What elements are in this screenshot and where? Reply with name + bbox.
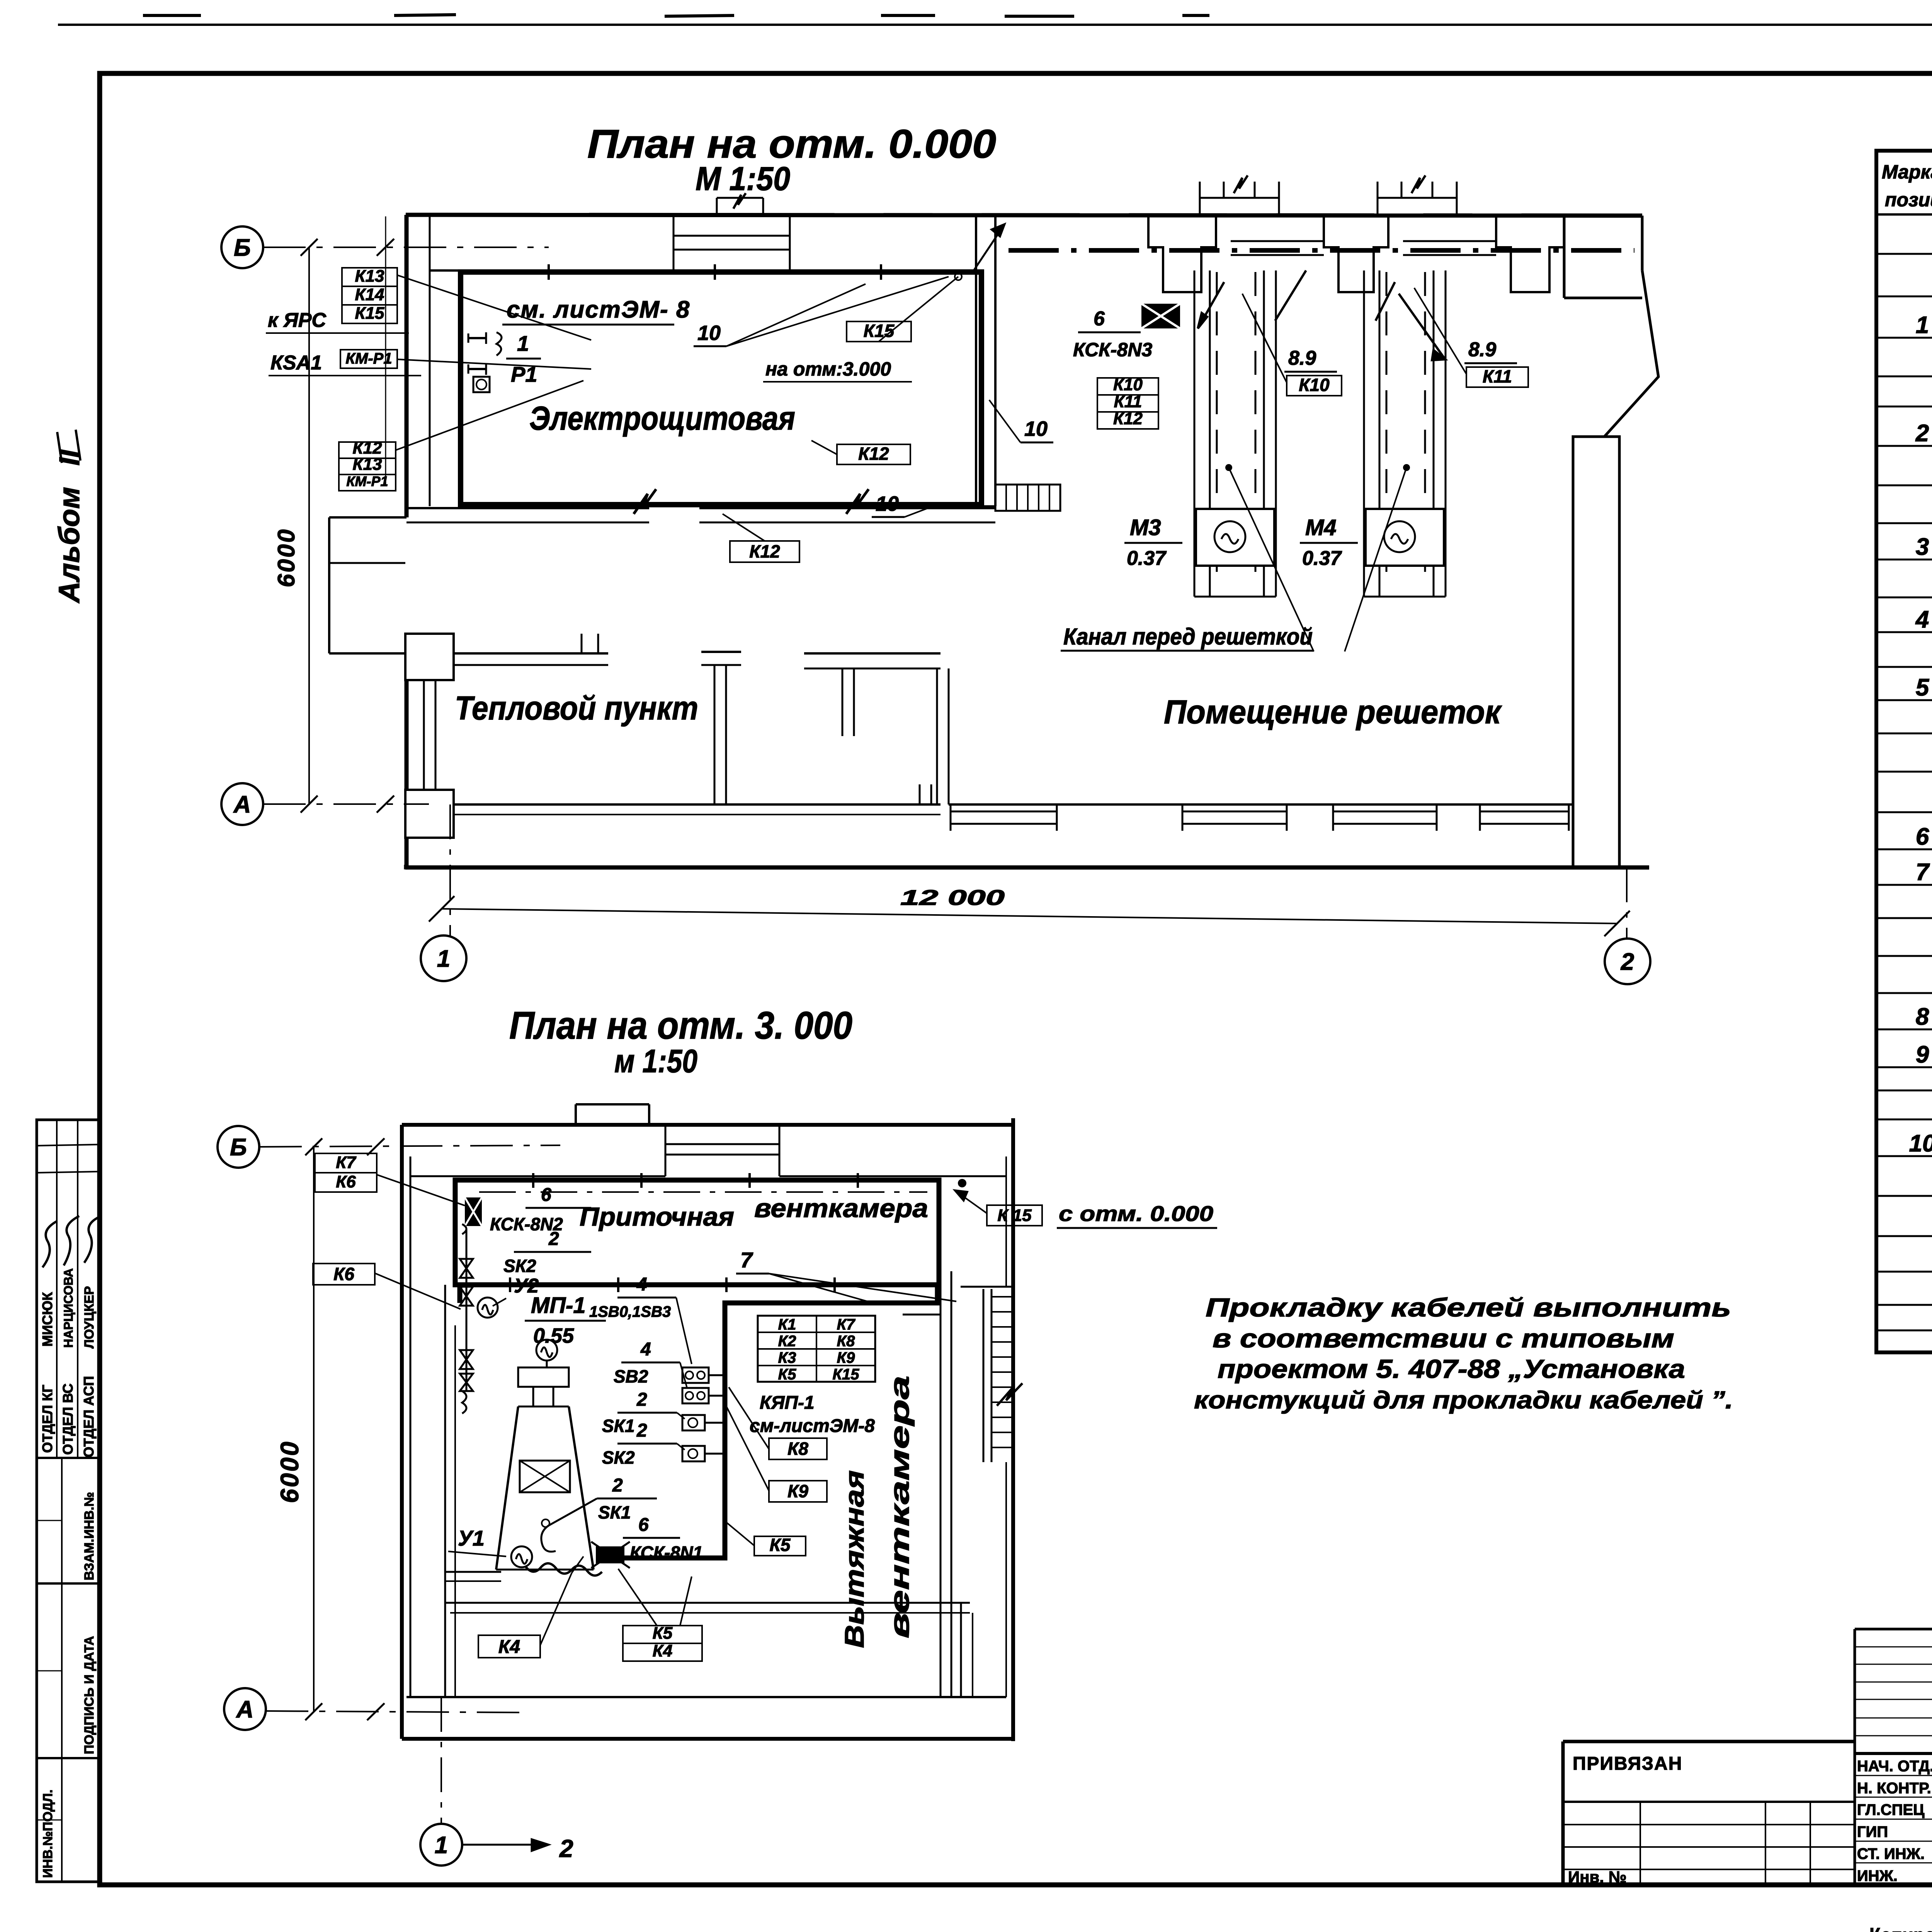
svg-text:К9: К9 (787, 1481, 808, 1501)
interior partition x2434 (940, 1271, 942, 1697)
ladder (983, 1289, 985, 1462)
svg-text:0.37: 0.37 (1302, 547, 1342, 570)
svg-text:см-листЭМ-8: см-листЭМ-8 (750, 1416, 875, 1436)
svg-text:КЯП-1: КЯП-1 (760, 1393, 815, 1413)
right wall break chevron (1564, 216, 1658, 437)
svg-text:А: А (233, 791, 251, 818)
grate channel М3 (1194, 270, 1196, 597)
parts table outline (1876, 151, 1932, 1352)
svg-text:ИНВ.№ПОДЛ.: ИНВ.№ПОДЛ. (41, 1789, 55, 1878)
svg-text:Марка,: Марка, (1882, 161, 1932, 183)
svg-text:К15: К15 (864, 321, 895, 341)
svg-text:ПРИВЯЗАН: ПРИВЯЗАН (1573, 1753, 1682, 1774)
K8 K9 K5 boxes (769, 1438, 827, 1459)
svg-text:4: 4 (1915, 606, 1929, 633)
dimension line 12000 (442, 909, 1617, 923)
svg-text:К4: К4 (498, 1637, 520, 1657)
roof mark above lower plan (576, 1103, 649, 1105)
lower interior rooms (444, 1285, 446, 1697)
svg-text:2: 2 (612, 1475, 623, 1496)
axis circle 2 top plan (1626, 867, 1628, 940)
svg-text:К3: К3 (778, 1349, 796, 1366)
svg-text:ОТДЕЛ АСП: ОТДЕЛ АСП (81, 1376, 97, 1458)
svg-text:SК2: SК2 (503, 1256, 536, 1276)
Электрощитовая south wall (406, 507, 649, 509)
title block privyazan section (1563, 1740, 1855, 1743)
axis B lower (218, 1126, 259, 1168)
svg-text:на отм:3.000: на отм:3.000 (765, 358, 891, 380)
svg-text:К5: К5 (778, 1366, 797, 1383)
svg-text:4: 4 (636, 1274, 647, 1295)
svg-text:КМ-Р1: КМ-Р1 (346, 473, 388, 489)
KCK-8N3 black box symbol (1141, 304, 1180, 328)
svg-text:К12: К12 (858, 444, 889, 464)
svg-text:венткамера: венткамера (754, 1194, 928, 1223)
svg-text:1SВ0,1SВ3: 1SВ0,1SВ3 (589, 1303, 671, 1320)
upper empty grid rows (1855, 1646, 1932, 1648)
K12 box lower (730, 541, 799, 562)
K7 K6 stack (315, 1153, 377, 1173)
axis A top plan (221, 783, 263, 825)
svg-text:ИНЖ.: ИНЖ. (1857, 1867, 1898, 1884)
svg-text:3: 3 (1916, 534, 1929, 560)
svg-text:12 000: 12 000 (900, 885, 1005, 910)
svg-text:К10: К10 (1299, 375, 1330, 395)
middle T-partition 2 (804, 652, 940, 655)
svg-text:А: А (236, 1696, 254, 1723)
stamp lower vertical divider (61, 1458, 63, 1583)
signature rows (1855, 1775, 1932, 1776)
svg-text:SК1: SК1 (602, 1416, 635, 1436)
bottom wall windows (951, 811, 1057, 813)
svg-text:к ЯРС: к ЯРС (268, 309, 327, 332)
scan top edge line (58, 24, 1932, 26)
axis 1 lower with arrow 2 (440, 1697, 442, 1823)
parts table header row line (1876, 213, 1932, 216)
svg-text:9: 9 (1916, 1041, 1929, 1068)
bold cable dash line top of grate room (1009, 248, 1634, 253)
svg-text:СТ. ИНЖ.: СТ. ИНЖ. (1857, 1845, 1925, 1862)
leader from kanal label (1229, 468, 1314, 651)
svg-text:SК1: SК1 (598, 1502, 631, 1522)
KCK-8N2 black box (465, 1197, 482, 1226)
svg-text:венткамера: венткамера (884, 1376, 915, 1638)
svg-text:10: 10 (697, 321, 721, 345)
KM-P1 box (340, 350, 397, 368)
svg-text:ГЛ.СПЕЦ: ГЛ.СПЕЦ (1857, 1801, 1924, 1818)
svg-text:К7: К7 (837, 1316, 856, 1333)
wavy cable to KCK-8N1 (526, 1563, 602, 1576)
K15 na otm 3000 (847, 321, 911, 342)
svg-text:КСК-8N1: КСК-8N1 (630, 1543, 703, 1563)
bottom wall outer line (405, 866, 1649, 870)
right pier column (1573, 437, 1619, 867)
KCK-8N1 black box (596, 1546, 624, 1563)
small stair symbol (995, 485, 1060, 511)
left valve chain (466, 1229, 468, 1391)
lower top window (665, 1143, 779, 1145)
svg-text:Прокладку кабелей выполнить: Прокладку кабелей выполнить (1206, 1293, 1731, 1322)
stamp column dividers top section (56, 1120, 58, 1458)
leader arrows into channels (1198, 270, 1306, 328)
svg-text:Б: Б (234, 235, 251, 261)
title block signature grid (1854, 1629, 1856, 1885)
svg-text:К12: К12 (1113, 409, 1143, 428)
fan unit (536, 1340, 557, 1361)
lower plan outer walls (402, 1123, 1013, 1127)
svg-text:К6: К6 (333, 1264, 354, 1284)
svg-text:К15: К15 (832, 1366, 859, 1383)
svg-text:1: 1 (437, 946, 450, 972)
svg-text:План на отм. 0.000: План на отм. 0.000 (587, 122, 996, 167)
svg-text:К6: К6 (336, 1172, 356, 1191)
bold cable rect Приточная (455, 1180, 939, 1285)
svg-text:1: 1 (517, 331, 529, 355)
svg-text:2: 2 (636, 1389, 647, 1410)
svg-text:2: 2 (1915, 420, 1929, 447)
svg-text:Тепловой пункт: Тепловой пункт (455, 690, 698, 727)
axis B top plan (221, 226, 263, 268)
stamp signatures (43, 1221, 57, 1267)
svg-text:8.9: 8.9 (1468, 338, 1496, 361)
lower inner wall lines (410, 1175, 665, 1177)
axis A lower (224, 1688, 266, 1730)
svg-text:см. листЭМ- 8: см. листЭМ- 8 (507, 296, 690, 323)
svg-text:ГИП: ГИП (1857, 1823, 1888, 1840)
svg-text:НАРЦИСОВА: НАРЦИСОВА (61, 1268, 75, 1348)
svg-text:проектом 5. 407-88 „Установ: проектом 5. 407-88 „Установка (1218, 1354, 1685, 1384)
svg-text:К4: К4 (653, 1641, 673, 1660)
svg-text:10: 10 (1024, 417, 1048, 440)
K12 K13 KM-P1 stack (339, 442, 396, 458)
svg-text:4: 4 (640, 1339, 651, 1360)
svg-text:6: 6 (541, 1185, 551, 1205)
svg-text:К10: К10 (1113, 375, 1143, 394)
svg-text:К12: К12 (749, 541, 780, 561)
bottom wall inner line (454, 803, 940, 806)
svg-text:МП-1: МП-1 (531, 1293, 586, 1318)
svg-text:1: 1 (1916, 312, 1929, 338)
cable ticks lower (532, 1173, 534, 1188)
svg-text:К11: К11 (1114, 392, 1142, 411)
svg-text:К11: К11 (1483, 366, 1512, 386)
svg-text:10: 10 (1909, 1130, 1932, 1157)
svg-text:6000: 6000 (273, 528, 300, 587)
svg-text:6000: 6000 (275, 1440, 304, 1503)
svg-text:8: 8 (1916, 1003, 1929, 1030)
svg-text:К9: К9 (837, 1349, 855, 1366)
svg-text:SК2: SК2 (602, 1447, 635, 1468)
svg-text:6: 6 (1094, 308, 1105, 330)
svg-text:К7: К7 (336, 1153, 357, 1172)
upper plan building outer walls (406, 215, 1642, 216)
svg-text:К8: К8 (837, 1333, 855, 1350)
svg-text:К13: К13 (353, 455, 382, 474)
cable ticks (548, 264, 550, 280)
K4 box (478, 1635, 540, 1658)
svg-text:7: 7 (740, 1248, 753, 1272)
terminal symbols on wall (468, 337, 486, 339)
vestibule wall (454, 652, 608, 655)
svg-text:М3: М3 (1130, 515, 1161, 540)
K15 s otm label (987, 1205, 1042, 1226)
top wall windows right part (1231, 240, 1324, 242)
top wall right piers (1148, 216, 1216, 292)
axis circle 1 top plan (449, 804, 451, 937)
svg-text:К5: К5 (653, 1624, 673, 1643)
grate channel М4 (1363, 270, 1365, 597)
svg-text:Копировал: АЛЕШИКОВА: Копировал: АЛЕШИКОВА (1869, 1923, 1932, 1932)
svg-text:0.37: 0.37 (1127, 547, 1167, 570)
svg-text:Приточная: Приточная (580, 1202, 734, 1231)
stamp top small rows (37, 1145, 100, 1146)
dash-dot overlay on cable rect (479, 1191, 927, 1193)
roof overhang marks right (1200, 197, 1279, 199)
svg-text:ОТДЕЛ ВС: ОТДЕЛ ВС (60, 1383, 76, 1455)
svg-text:8.9: 8.9 (1288, 347, 1316, 369)
svg-text:Помещение решеток: Помещение решеток (1164, 694, 1502, 731)
svg-text:Канал перед решеткой: Канал перед решеткой (1063, 624, 1313, 650)
svg-text:Вытяжная: Вытяжная (839, 1470, 869, 1648)
svg-text:К 15: К 15 (997, 1206, 1032, 1225)
svg-text:Б: Б (230, 1134, 247, 1161)
svg-text:Инв. №: Инв. № (1568, 1868, 1627, 1886)
vertical dim 6000 lower (313, 1147, 315, 1712)
svg-text:констукций для прокладки кабел: констукций для прокладки кабелей ”. (1194, 1386, 1733, 1414)
partition Электрощитовая right (975, 216, 977, 506)
K12 box mid (837, 444, 910, 464)
svg-text:ОТДЕЛ КГ: ОТДЕЛ КГ (39, 1385, 55, 1453)
svg-text:К8: К8 (787, 1439, 808, 1459)
svg-text:ВЗАМ.ИНВ.№: ВЗАМ.ИНВ.№ (82, 1492, 97, 1580)
svg-text:М 1:50: М 1:50 (696, 160, 790, 197)
K mini table (758, 1316, 875, 1382)
svg-text:М4: М4 (1305, 515, 1337, 540)
vertical dim 6000 top plan (308, 247, 310, 804)
svg-text:2: 2 (559, 1835, 573, 1862)
svg-text:КSА1: КSА1 (270, 352, 322, 374)
svg-text:У1: У1 (458, 1526, 485, 1550)
svg-text:2: 2 (1621, 949, 1634, 975)
svg-text:7: 7 (1916, 859, 1930, 886)
svg-text:м 1:50: м 1:50 (614, 1043, 697, 1079)
svg-text:10: 10 (876, 492, 899, 515)
svg-text:ЛОУЦКЕР: ЛОУЦКЕР (82, 1286, 97, 1349)
roof overhang mark above window1 (717, 197, 763, 199)
svg-text:SВ2: SВ2 (614, 1366, 648, 1386)
entrance protrusion left (329, 516, 406, 519)
svg-text:План на отм. 3. 000: План на отм. 3. 000 (509, 1004, 852, 1047)
K6 box (313, 1264, 375, 1285)
bottom-left piers (405, 634, 454, 680)
svg-text:К14: К14 (355, 285, 384, 304)
top wall window 1 (673, 235, 790, 237)
svg-text:К5: К5 (770, 1535, 791, 1555)
svg-text:К13: К13 (355, 267, 384, 286)
svg-text:2: 2 (548, 1229, 559, 1249)
svg-text:К1: К1 (778, 1316, 796, 1333)
svg-text:позиц.: позиц. (1885, 189, 1932, 211)
svg-text:НАЧ. ОТД.: НАЧ. ОТД. (1857, 1758, 1932, 1775)
svg-text:в соответствии с типовым: в соответствии с типовым (1213, 1324, 1674, 1353)
K5 K4 stack (623, 1626, 702, 1643)
K10 K11 K12 stack (1097, 378, 1158, 395)
svg-text:1: 1 (435, 1832, 448, 1859)
svg-text:МИСЮК: МИСЮК (39, 1292, 55, 1347)
svg-text:Электрощитовая: Электрощитовая (529, 400, 795, 437)
leader lines left cluster (397, 275, 591, 340)
svg-text:Н. КОНТР.: Н. КОНТР. (1857, 1780, 1931, 1797)
middle T-partition 1 (701, 651, 741, 653)
bold cable run rectangle Электрощитовая (461, 272, 981, 505)
K13 K14 K15 stack (342, 268, 397, 286)
svg-text:ПОДПИСЬ И ДАТА: ПОДПИСЬ И ДАТА (82, 1636, 97, 1754)
svg-text:Альбом: Альбом (53, 487, 86, 604)
svg-text:2: 2 (636, 1420, 647, 1441)
svg-text:К2: К2 (778, 1333, 796, 1350)
upper plan inner top wall line (430, 270, 857, 271)
arrow up near K15 (974, 224, 1005, 270)
svg-text:КСК-8N3: КСК-8N3 (1073, 339, 1152, 361)
bold cable L-run (603, 1285, 937, 1558)
stamp horizontal divider (37, 1457, 100, 1459)
svg-text:6: 6 (1916, 823, 1929, 850)
parts table row lines (1876, 253, 1932, 255)
push buttons SB (682, 1367, 709, 1383)
svg-text:6: 6 (638, 1515, 649, 1535)
svg-text:К15: К15 (355, 304, 385, 323)
svg-text:5: 5 (1916, 674, 1930, 701)
left stamp table outline (37, 1120, 100, 1882)
svg-text:с отм. 0.000: с отм. 0.000 (1059, 1201, 1213, 1226)
